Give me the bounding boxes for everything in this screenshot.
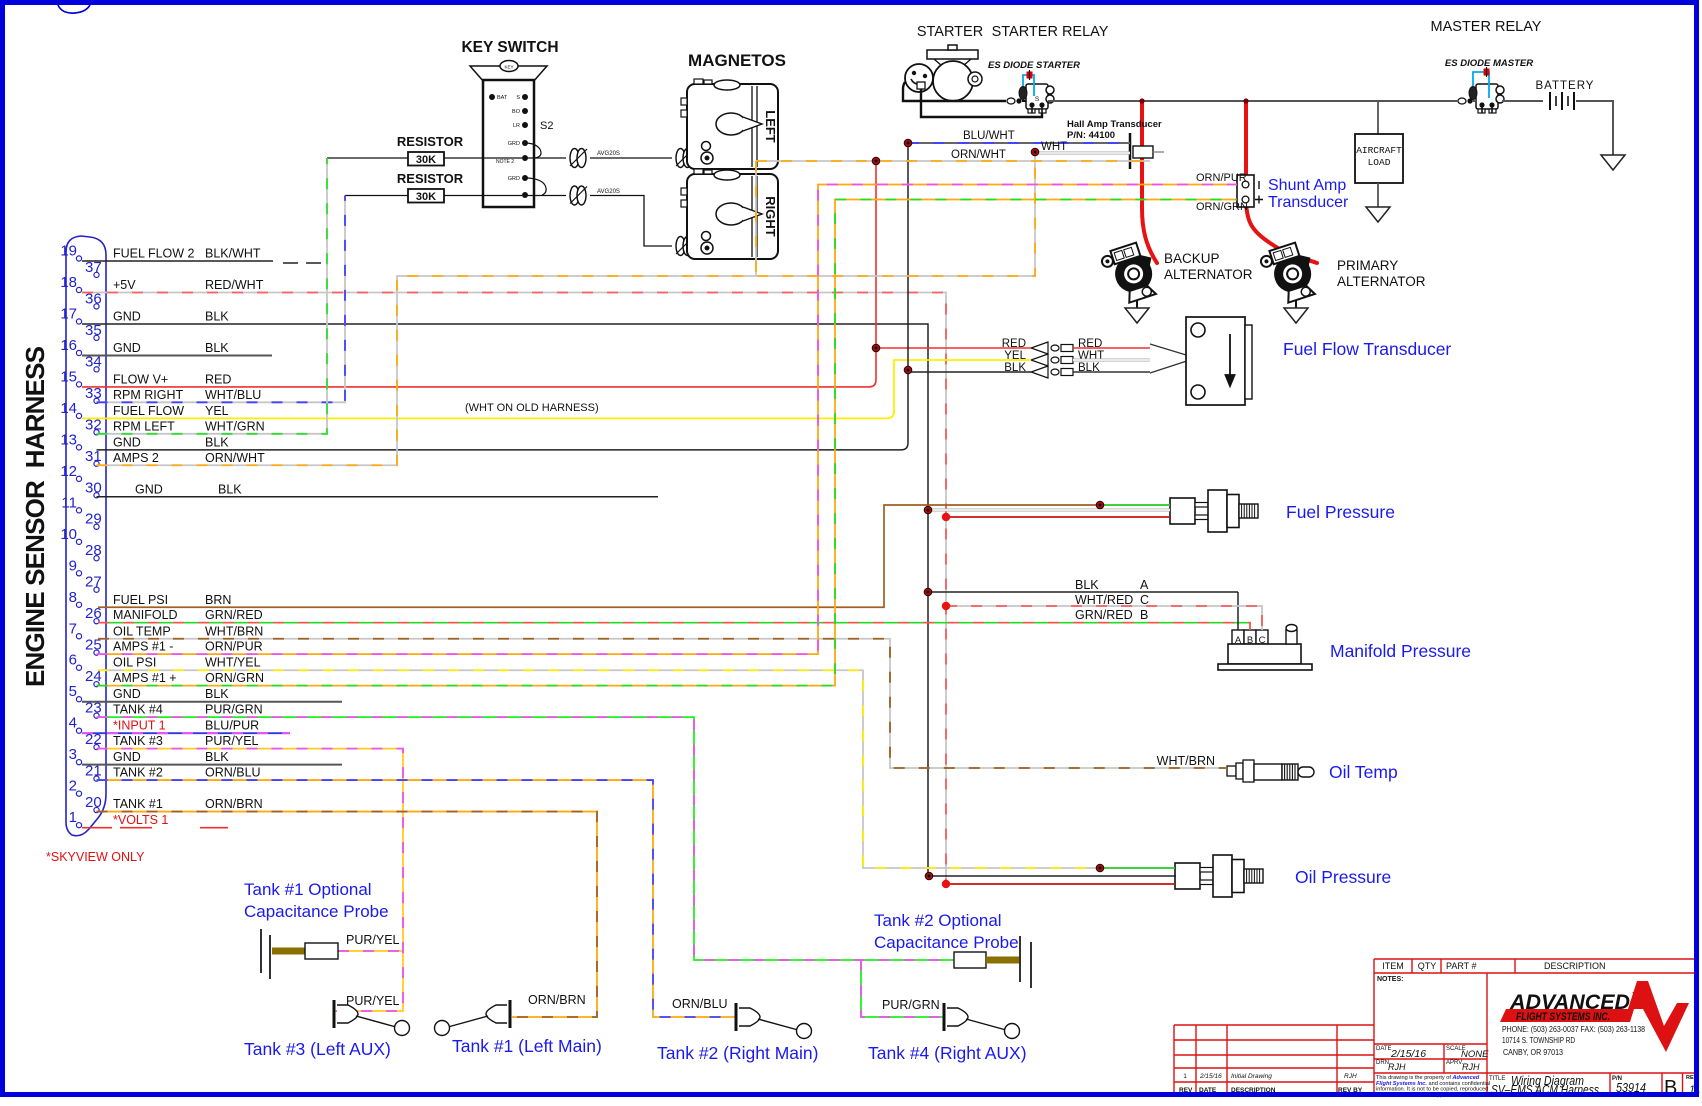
- svg-text:*VOLTS 1: *VOLTS 1: [113, 813, 168, 827]
- svg-text:BLK/WHT: BLK/WHT: [205, 247, 261, 261]
- svg-text:+5V: +5V: [113, 278, 136, 292]
- svg-text:3: 3: [69, 746, 77, 763]
- svg-text:LEFT: LEFT: [763, 110, 778, 143]
- svg-text:19: 19: [60, 243, 77, 260]
- svg-text:11: 11: [61, 494, 77, 511]
- svg-text:C: C: [1140, 593, 1149, 607]
- svg-text:BLK: BLK: [205, 687, 229, 701]
- svg-text:Tank #1 Optional: Tank #1 Optional: [244, 880, 372, 899]
- svg-text:PUR/YEL: PUR/YEL: [346, 933, 400, 947]
- svg-text:A: A: [1140, 578, 1149, 592]
- svg-text:ORN/PUR: ORN/PUR: [1196, 172, 1247, 184]
- svg-text:ORN/GRN: ORN/GRN: [1196, 201, 1248, 213]
- svg-text:TANK #3: TANK #3: [113, 734, 163, 748]
- svg-text:Transducer: Transducer: [1268, 194, 1349, 211]
- svg-text:BLK: BLK: [205, 435, 229, 449]
- svg-text:AVG20S: AVG20S: [597, 151, 620, 157]
- svg-text:OIL TEMP: OIL TEMP: [113, 624, 171, 638]
- svg-text:RJH: RJH: [1344, 1073, 1357, 1080]
- svg-text:ORN/WHT: ORN/WHT: [205, 451, 265, 465]
- svg-text:FUEL PSI: FUEL PSI: [113, 593, 168, 607]
- svg-text:Tank #4 (Right AUX): Tank #4 (Right AUX): [868, 1043, 1027, 1063]
- svg-text:TANK #4: TANK #4: [113, 703, 163, 717]
- svg-text:PRIMARY: PRIMARY: [1337, 258, 1398, 273]
- svg-text:WHT/BRN: WHT/BRN: [205, 624, 263, 638]
- svg-text:MASTER RELAY: MASTER RELAY: [1431, 19, 1542, 35]
- svg-text:S2: S2: [540, 120, 553, 132]
- svg-text:WHT/GRN: WHT/GRN: [205, 419, 265, 433]
- svg-text:FLIGHT SYSTEMS INC.: FLIGHT SYSTEMS INC.: [1516, 1011, 1610, 1023]
- svg-text:29: 29: [85, 511, 102, 528]
- svg-text:RED: RED: [205, 372, 231, 386]
- svg-text:BAT: BAT: [497, 95, 508, 101]
- svg-text:Shunt Amp: Shunt Amp: [1268, 177, 1346, 194]
- svg-text:GRN/RED: GRN/RED: [205, 608, 263, 622]
- svg-text:GND: GND: [113, 309, 141, 323]
- svg-text:ALTERNATOR: ALTERNATOR: [1337, 274, 1426, 289]
- svg-text:ORN/BLU: ORN/BLU: [205, 766, 261, 780]
- svg-text:30: 30: [85, 479, 102, 496]
- svg-text:AMPS #1 -: AMPS #1 -: [113, 640, 173, 654]
- svg-text:2: 2: [69, 778, 77, 795]
- svg-text:ENGINE SENSOR HARNESS: ENGINE SENSOR HARNESS: [20, 346, 50, 687]
- svg-text:B: B: [1140, 608, 1148, 622]
- svg-text:S: S: [1035, 96, 1040, 103]
- svg-text:BLK: BLK: [1075, 578, 1099, 592]
- svg-text:GND: GND: [113, 435, 141, 449]
- svg-text:2/15/16: 2/15/16: [1390, 1048, 1426, 1060]
- svg-text:LR: LR: [513, 123, 520, 129]
- svg-text:7: 7: [69, 620, 77, 637]
- svg-text:12: 12: [60, 463, 77, 480]
- svg-text:Tank #2 Optional: Tank #2 Optional: [874, 911, 1002, 930]
- svg-text:BRN: BRN: [205, 593, 231, 607]
- svg-text:Capacitance Probe: Capacitance Probe: [874, 933, 1019, 952]
- svg-text:20: 20: [85, 794, 102, 811]
- svg-text:ORN/BRN: ORN/BRN: [528, 993, 586, 1007]
- svg-text:PUR/YEL: PUR/YEL: [205, 734, 259, 748]
- svg-text:FUEL FLOW: FUEL FLOW: [113, 404, 184, 418]
- svg-text:GRD: GRD: [508, 141, 520, 147]
- svg-text:ORN/GRN: ORN/GRN: [205, 671, 264, 685]
- svg-text:Manifold Pressure: Manifold Pressure: [1330, 641, 1471, 661]
- svg-text:P/N: 44100: P/N: 44100: [1067, 130, 1115, 141]
- svg-text:30K: 30K: [416, 154, 436, 166]
- svg-text:ALTERNATOR: ALTERNATOR: [1164, 267, 1253, 282]
- svg-text:GND: GND: [135, 482, 163, 496]
- svg-text:27: 27: [85, 574, 102, 591]
- svg-text:NOTE 2: NOTE 2: [496, 159, 514, 165]
- svg-text:RPM RIGHT: RPM RIGHT: [113, 388, 184, 402]
- svg-text:DATE: DATE: [1376, 1046, 1392, 1052]
- svg-text:AIRCRAFT: AIRCRAFT: [1356, 145, 1402, 156]
- svg-text:RPM LEFT: RPM LEFT: [113, 419, 175, 433]
- svg-text:YEL: YEL: [205, 404, 229, 418]
- svg-text:Hall Amp Transducer: Hall Amp Transducer: [1067, 119, 1162, 130]
- svg-text:AMPS 2: AMPS 2: [113, 451, 159, 465]
- svg-text:OIL PSI: OIL PSI: [113, 656, 156, 670]
- svg-text:PUR/GRN: PUR/GRN: [205, 703, 263, 717]
- svg-text:1: 1: [1183, 1073, 1187, 1080]
- svg-text:BLK: BLK: [205, 341, 229, 355]
- svg-text:GND: GND: [113, 750, 141, 764]
- svg-text:Oil Temp: Oil Temp: [1329, 762, 1398, 782]
- svg-text:4: 4: [69, 715, 77, 732]
- svg-text:28: 28: [85, 542, 102, 559]
- svg-text:WHT/BLU: WHT/BLU: [205, 388, 261, 402]
- svg-text:BLK: BLK: [218, 482, 242, 496]
- svg-text:9: 9: [69, 557, 77, 574]
- svg-text:BO: BO: [512, 109, 521, 115]
- svg-text:Tank #3 (Left AUX): Tank #3 (Left AUX): [244, 1039, 391, 1059]
- svg-text:NONE: NONE: [1461, 1049, 1489, 1060]
- svg-text:Initial Drawing: Initial Drawing: [1231, 1073, 1272, 1080]
- svg-text:PHONE: (503) 263-0037 FAX: (5: PHONE: (503) 263-0037 FAX: (503) 263-113…: [1502, 1025, 1645, 1034]
- svg-text:STARTER RELAY: STARTER RELAY: [992, 24, 1109, 40]
- svg-text:RESISTOR: RESISTOR: [397, 134, 464, 149]
- svg-text:GND: GND: [113, 341, 141, 355]
- svg-text:WHT/RED: WHT/RED: [1075, 593, 1133, 607]
- svg-text:KEY SWITCH: KEY SWITCH: [461, 39, 558, 56]
- svg-text:MANIFOLD: MANIFOLD: [113, 608, 178, 622]
- svg-text:PUR/YEL: PUR/YEL: [346, 994, 400, 1008]
- svg-text:5: 5: [69, 683, 77, 700]
- svg-text:17: 17: [60, 305, 77, 322]
- svg-text:FUEL FLOW 2: FUEL FLOW 2: [113, 247, 195, 261]
- svg-text:S: S: [516, 95, 520, 101]
- svg-text:10: 10: [60, 526, 77, 543]
- svg-text:ORN/BLU: ORN/BLU: [672, 997, 728, 1011]
- svg-text:FLOW V+: FLOW V+: [113, 372, 168, 386]
- svg-text:ORN/WHT: ORN/WHT: [951, 149, 1006, 161]
- svg-text:BLK: BLK: [205, 750, 229, 764]
- svg-text:Tank #1 (Left Main): Tank #1 (Left Main): [452, 1036, 602, 1056]
- svg-text:*INPUT 1: *INPUT 1: [113, 719, 166, 733]
- svg-text:Oil Pressure: Oil Pressure: [1295, 867, 1391, 887]
- svg-text:14: 14: [60, 400, 77, 417]
- svg-text:WHT: WHT: [1041, 141, 1067, 153]
- svg-text:Fuel Flow Transducer: Fuel Flow Transducer: [1283, 339, 1451, 359]
- svg-text:1: 1: [69, 809, 77, 826]
- svg-text:(WHT ON OLD HARNESS): (WHT ON OLD HARNESS): [465, 402, 599, 414]
- svg-text:*SKYVIEW ONLY: *SKYVIEW ONLY: [46, 850, 145, 864]
- svg-text:NOTES:: NOTES:: [1377, 976, 1403, 983]
- svg-text:TANK #2: TANK #2: [113, 766, 163, 780]
- svg-text:MAGNETOS: MAGNETOS: [688, 51, 786, 70]
- svg-text:Fuel Pressure: Fuel Pressure: [1286, 502, 1395, 522]
- svg-text:GRN/RED: GRN/RED: [1075, 608, 1133, 622]
- svg-text:RIGHT: RIGHT: [763, 196, 778, 237]
- svg-text:GRD: GRD: [508, 176, 520, 182]
- svg-text:TANK #1: TANK #1: [113, 797, 163, 811]
- svg-text:18: 18: [60, 274, 77, 291]
- svg-text:13: 13: [60, 431, 77, 448]
- svg-text:Tank #2 (Right Main): Tank #2 (Right Main): [657, 1043, 818, 1063]
- svg-text:ORN/PUR: ORN/PUR: [205, 640, 263, 654]
- svg-text:RESISTOR: RESISTOR: [397, 171, 464, 186]
- svg-text:BLU/WHT: BLU/WHT: [963, 130, 1015, 142]
- svg-text:QTY: QTY: [1418, 961, 1437, 971]
- svg-text:RED/WHT: RED/WHT: [205, 278, 264, 292]
- svg-text:6: 6: [69, 652, 77, 669]
- svg-text:15: 15: [60, 368, 77, 385]
- svg-text:WHT/YEL: WHT/YEL: [205, 656, 261, 670]
- svg-text:2/15/16: 2/15/16: [1199, 1073, 1222, 1080]
- svg-text:10714 S. TOWNSHIP RD: 10714 S. TOWNSHIP RD: [1502, 1036, 1575, 1045]
- svg-text:DESCRIPTION: DESCRIPTION: [1544, 961, 1606, 971]
- svg-text:BLK: BLK: [205, 309, 229, 323]
- svg-text:BACKUP: BACKUP: [1164, 251, 1220, 266]
- svg-text:KEY: KEY: [504, 65, 513, 70]
- svg-text:8: 8: [69, 589, 77, 606]
- svg-text:CANBY, OR 97013: CANBY, OR 97013: [1503, 1048, 1563, 1057]
- svg-text:STARTER: STARTER: [917, 24, 983, 40]
- svg-text:LOAD: LOAD: [1368, 157, 1391, 168]
- svg-text:ITEM: ITEM: [1382, 961, 1404, 971]
- svg-text:WHT/BRN: WHT/BRN: [1157, 754, 1215, 768]
- svg-text:ORN/BRN: ORN/BRN: [205, 797, 263, 811]
- svg-text:AVG20S: AVG20S: [597, 189, 620, 195]
- svg-text:PUR/GRN: PUR/GRN: [882, 998, 940, 1012]
- svg-text:ES DIODE STARTER: ES DIODE STARTER: [988, 60, 1080, 71]
- svg-text:30K: 30K: [416, 191, 436, 203]
- svg-text:GND: GND: [113, 687, 141, 701]
- svg-text:RJH: RJH: [1388, 1062, 1406, 1072]
- svg-text:16: 16: [60, 337, 77, 354]
- svg-text:BLU/PUR: BLU/PUR: [205, 719, 259, 733]
- svg-text:PART #: PART #: [1446, 961, 1477, 971]
- svg-text:RJH: RJH: [1462, 1062, 1480, 1072]
- svg-text:ES DIODE MASTER: ES DIODE MASTER: [1445, 58, 1533, 69]
- svg-text:BATTERY: BATTERY: [1536, 80, 1595, 92]
- svg-text:AMPS #1 +: AMPS #1 +: [113, 671, 177, 685]
- svg-text:Capacitance Probe: Capacitance Probe: [244, 902, 389, 921]
